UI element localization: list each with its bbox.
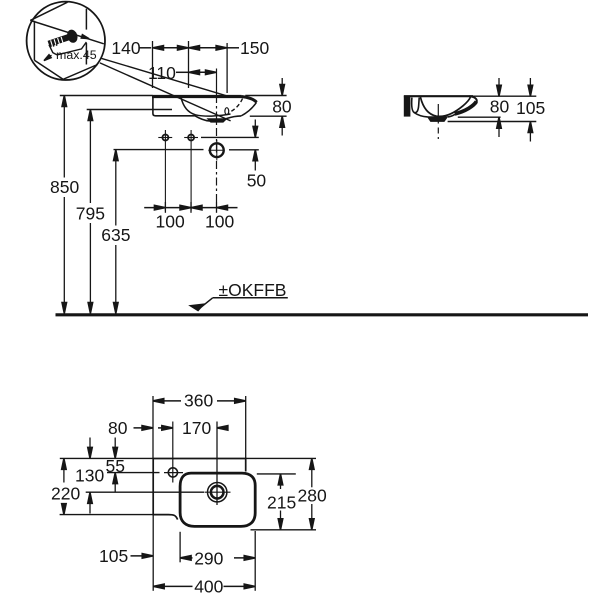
- basin front: drain centerline: [216, 69, 218, 96]
- svg-text:360: 360: [184, 390, 213, 410]
- plan outer outline: [153, 459, 246, 520]
- svg-text:280: 280: [298, 486, 327, 506]
- detail diagonal arrowhead: [81, 35, 89, 41]
- plan left ext top: [60, 457, 153, 459]
- detail bottom-left chord: [34, 60, 63, 79]
- svg-text:80: 80: [108, 418, 128, 438]
- leader line upper to basin rim: [102, 58, 229, 96]
- plan dim 360 ticks: [152, 396, 154, 459]
- side dim 105: [529, 78, 531, 96]
- plan tap hole vertical: [172, 422, 174, 483]
- drain hole circle: [210, 143, 224, 157]
- side view beak band: [455, 102, 477, 114]
- basin front: right beak bold: [242, 97, 257, 103]
- plan dim 360: [153, 400, 181, 402]
- dim 140/150 ticks: [152, 41, 154, 88]
- svg-text:140: 140: [111, 38, 140, 58]
- OKFFB underline: [213, 297, 288, 299]
- plan dim 400: [153, 584, 164, 589]
- dim 635: [115, 152, 117, 226]
- plan dim 220: [62, 458, 67, 469]
- basin front: left edge and bottom: [153, 98, 241, 122]
- basin front: beak underside: [241, 102, 256, 116]
- side view beak outer: [470, 96, 477, 102]
- svg-text:110: 110: [148, 63, 176, 83]
- svg-text:max.45: max.45: [56, 48, 97, 62]
- svg-text:795: 795: [76, 204, 105, 224]
- plan drain horizontal ticks: [205, 491, 231, 493]
- plan dim 170: [217, 427, 228, 429]
- plan drain vertical centerline: [216, 422, 218, 506]
- dim 100 100: [144, 207, 237, 209]
- detail bottom-right chord: [62, 65, 98, 80]
- plan right ext 215: [257, 473, 296, 475]
- svg-text:850: 850: [50, 177, 79, 197]
- svg-text:55: 55: [106, 456, 125, 476]
- ext line 850: [60, 95, 153, 97]
- max.45 leader arrow: [44, 55, 52, 60]
- detail roof chord: [30, 2, 67, 20]
- side view centerline: [437, 104, 439, 124]
- svg-text:635: 635: [101, 225, 130, 245]
- plan dim 80: [134, 427, 154, 429]
- detail circle: [27, 2, 105, 80]
- screw thread dashes: [51, 37, 63, 46]
- svg-text:215: 215: [267, 493, 296, 513]
- basin front: overflow oval: [225, 108, 229, 115]
- screw thread dots: [50, 44, 58, 47]
- side view bottom right curve: [448, 114, 455, 117]
- basin front: top rim bold: [152, 95, 242, 98]
- svg-text:220: 220: [51, 483, 80, 503]
- OKFFB diagonal: [198, 298, 213, 310]
- screw body: [49, 37, 70, 44]
- side view bowl interior: [420, 97, 470, 116]
- svg-text:150: 150: [240, 38, 269, 58]
- plan drain outer: [208, 483, 227, 502]
- detail zigzag magnified edge: [49, 45, 57, 55]
- svg-text:130: 130: [75, 465, 104, 485]
- dim 110: [176, 71, 189, 73]
- plan tap hole: [168, 468, 177, 477]
- side view wall bar: [404, 96, 411, 116]
- detail diagonal surface line: [30, 20, 104, 43]
- basin front: inner bowl arc: [181, 97, 231, 116]
- detail vertical line B lower: [85, 43, 87, 65]
- plan dim 280: [310, 458, 315, 469]
- mounting hole left: [162, 135, 168, 141]
- basin front: hidden dashed arc: [229, 99, 243, 113]
- plan left ext step: [60, 514, 154, 516]
- side view bottom left curve: [414, 113, 427, 117]
- plan right ext bottom: [251, 529, 317, 531]
- svg-text:50: 50: [247, 171, 267, 191]
- OKFFB level triangle: [188, 303, 205, 311]
- plan left ext tap: [107, 472, 160, 474]
- svg-text:170: 170: [182, 418, 211, 438]
- dim 50: [201, 136, 259, 138]
- plan dim 55: [114, 438, 116, 459]
- basin front: drain trapezoid: [207, 118, 228, 122]
- plan dim 215: [278, 474, 283, 485]
- side view ext 105: [448, 121, 537, 123]
- detail vertical line A: [33, 21, 35, 61]
- side view J hook: [412, 98, 420, 113]
- side view ext 80: [458, 116, 501, 118]
- side view drain boss: [427, 116, 449, 122]
- svg-text:80: 80: [272, 97, 292, 117]
- dim 795: [89, 112, 91, 203]
- screw head: [65, 28, 79, 44]
- svg-text:105: 105: [516, 98, 545, 118]
- dim 140/150 arrows: [153, 46, 164, 51]
- side view top ext thin: [473, 95, 536, 97]
- mounting hole right: [188, 135, 194, 141]
- floor line: [56, 313, 589, 316]
- side view top rim bold: [404, 95, 473, 97]
- ext line 635: [114, 149, 204, 151]
- svg-text:105: 105: [99, 546, 128, 566]
- svg-text:80: 80: [490, 97, 510, 117]
- dim 850: [63, 98, 65, 178]
- dim 140/150 line: [140, 47, 152, 49]
- plan dim 130: [89, 438, 91, 459]
- plan drain inner: [211, 486, 224, 499]
- side dim 80: [498, 78, 500, 96]
- svg-text:100: 100: [205, 212, 234, 232]
- svg-text:±OKFFB: ±OKFFB: [219, 280, 287, 300]
- leader line lower to basin drain: [100, 63, 231, 121]
- detail vertical line B upper: [85, 9, 87, 30]
- plan bottom tick left: [152, 515, 154, 591]
- svg-text:290: 290: [194, 548, 223, 568]
- plan right ext top: [246, 457, 316, 459]
- svg-text:400: 400: [194, 576, 223, 596]
- plan dim 290: [180, 556, 191, 561]
- svg-text:100: 100: [156, 212, 185, 232]
- detail magnified edge right: [57, 42, 86, 55]
- plan bottom tick bowl left: [179, 532, 181, 563]
- dim 80 front right: [245, 95, 286, 97]
- plan bowl bold: [180, 473, 255, 526]
- plan bottom tick right: [254, 531, 256, 591]
- plan left ext drain: [86, 491, 204, 493]
- ext line 795: [87, 109, 172, 111]
